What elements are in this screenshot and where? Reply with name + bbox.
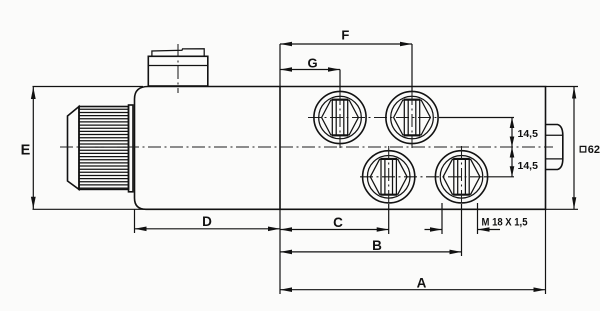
port P4 lower-right: [435, 151, 487, 203]
C arrow right: [377, 227, 389, 232]
F arrow right: [400, 42, 412, 47]
C dimension line: [280, 229, 389, 231]
M18 extension line right: [477, 203, 479, 234]
E dimension line: [32, 87, 34, 210]
14,5 upper arrow down: [510, 137, 515, 148]
B arrow left: [280, 250, 292, 255]
G arrow left: [280, 67, 292, 72]
knob right end washer strip: [129, 105, 134, 192]
top cap divider line: [148, 65, 208, 67]
lower ports row centerline: [360, 176, 484, 178]
square-62 arrow down: [572, 197, 576, 209]
F dimension line: [280, 43, 412, 45]
D arrow right: [268, 227, 280, 232]
svg-text:E: E: [21, 142, 31, 158]
B dimension line: [280, 251, 462, 253]
square-62 dimension line: [573, 87, 575, 210]
knurl lines: [79, 109, 129, 188]
A dimension line: [280, 289, 546, 291]
port P3 lower-left: [363, 151, 415, 203]
square-62 extension top: [546, 86, 578, 88]
cap centerline: [177, 44, 179, 93]
E dimension extension line bottom: [33, 208, 147, 210]
internal step line between tube section and block: [279, 87, 281, 210]
side plug on right face: [546, 125, 563, 170]
valve body outline: [135, 87, 546, 210]
svg-text:C: C: [333, 215, 343, 230]
square-62 arrow up: [572, 87, 576, 99]
A arrow right: [534, 287, 546, 292]
M18 extension line left: [441, 203, 443, 234]
14,5 lower arrow down: [510, 166, 515, 177]
top cap upper box: [152, 49, 204, 57]
port P4 vertical centerline / B extension: [461, 146, 463, 204]
svg-text:62: 62: [588, 144, 600, 156]
svg-text:G: G: [307, 56, 317, 71]
M18 dimension left arrow: [425, 229, 443, 231]
svg-text:F: F: [341, 28, 349, 43]
D arrow left: [135, 227, 147, 232]
14,5 dimension line lower: [511, 147, 513, 177]
knob trapezoid cap: [68, 107, 80, 190]
G arrow right: [328, 67, 340, 72]
bottom extension of step line: [279, 209, 281, 294]
F arrow left: [280, 42, 292, 47]
label square 62: [580, 146, 586, 152]
svg-text:14,5: 14,5: [518, 128, 539, 140]
port P2 upper-right: [386, 91, 438, 143]
A arrow left: [280, 287, 292, 292]
svg-text:14,5: 14,5: [518, 160, 539, 172]
svg-text:D: D: [202, 214, 212, 229]
upper ports row centerline: [308, 117, 438, 119]
B arrow right: [450, 250, 462, 255]
port P2 vertical centerline: [411, 44, 413, 92]
main horizontal centerline: [60, 146, 553, 148]
D/A left extension: body left edge extended down: [134, 209, 136, 233]
C arrow left: [280, 227, 292, 232]
14,5 upper arrow up: [510, 118, 515, 129]
14,5 lower arrow up: [510, 147, 515, 158]
knurled knob body: [79, 107, 129, 190]
14,5 reference line lower: [484, 176, 514, 178]
E dimension extension line top: [33, 86, 144, 88]
top cap lower box: [148, 56, 208, 86]
svg-text:M 18 X 1,5: M 18 X 1,5: [482, 217, 528, 229]
G dimension line: [280, 69, 340, 71]
svg-text:A: A: [417, 276, 427, 291]
port P1 vertical centerline: [339, 70, 341, 93]
14,5 dimension line upper: [511, 118, 513, 148]
M18 dimension right arrow: [478, 229, 501, 231]
14,5 reference line upper: [439, 117, 514, 119]
port P3 vertical centerline / C extension: [388, 146, 390, 204]
D dimension line: [135, 228, 281, 230]
square-62 extension bottom: [546, 208, 578, 210]
right edge extension for A: [545, 209, 547, 294]
E arrow up: [31, 87, 36, 99]
svg-text:B: B: [372, 238, 382, 253]
F/G left extension line (also step line extension): [279, 44, 281, 87]
port P1 upper-left: [314, 91, 366, 143]
E arrow down: [31, 197, 36, 209]
